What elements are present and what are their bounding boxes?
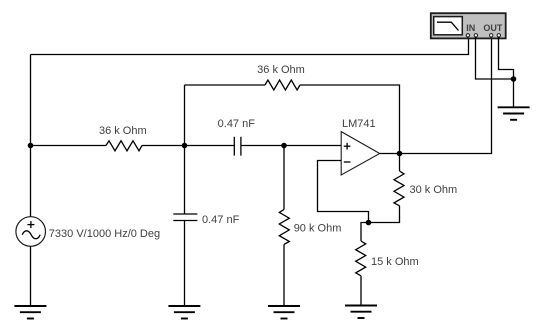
wire R1 right to node A (142, 145, 234, 147)
wire op-amp minus input feedback path (318, 161, 369, 223)
svg-text:IN: IN (466, 23, 475, 33)
wire top horizontal from left corner to Bode plotter IN+ (31, 37, 469, 55)
Bode plotter XBP1 body (431, 13, 506, 38)
svg-text:0.47 nF: 0.47 nF (202, 214, 240, 226)
wire R4 bottom to feedback node (369, 206, 400, 223)
capacitor C1 0.47 nF (series) right plate (240, 137, 242, 156)
wire R3 bottom to ground (283, 244, 285, 306)
resistor R4 30 k Ohm (394, 171, 404, 206)
Bode plotter screen (434, 17, 463, 35)
svg-text:15 k Ohm: 15 k Ohm (371, 256, 419, 268)
wire source top: input node down to V1 (30, 146, 32, 217)
wire node B down to R3 (283, 146, 285, 210)
svg-text:OUT: OUT (483, 23, 503, 33)
ground under C2 (168, 306, 200, 319)
wire IN- down and right to instrument ground node (476, 37, 514, 79)
Bode plotter response curve (437, 22, 459, 30)
node dot input (28, 143, 34, 149)
wire input node to R1 left (31, 145, 107, 147)
wire instrument ground node down to ground (513, 79, 515, 107)
AC source V1 circle (16, 217, 46, 247)
wire output node down to R4 top (399, 154, 401, 172)
capacitor C1 0.47 nF (series) left plate (233, 137, 235, 156)
wire V1 bottom to ground (30, 246, 32, 306)
resistor R2 36 k Ohm (feedback) (265, 80, 300, 90)
terminal OUT+ (490, 34, 493, 37)
ground under V1 (14, 306, 46, 319)
capacitor C2 0.47 nF (shunt) top plate (173, 213, 197, 215)
capacitor C2 0.47 nF (shunt) bottom plate (173, 220, 197, 222)
ground under R3 (268, 306, 300, 319)
node B dot (281, 143, 287, 149)
V1 sine wave (22, 231, 40, 239)
node A dot (182, 143, 188, 149)
op-amp minus sign (344, 161, 351, 163)
wire OUT- down and right to instrument ground node (499, 37, 514, 79)
terminal IN- (474, 34, 477, 37)
svg-text:LM741: LM741 (342, 118, 376, 130)
svg-text:30 k Ohm: 30 k Ohm (410, 184, 458, 196)
wire feedback top left segment (185, 84, 266, 86)
instrument ground node dot (511, 76, 517, 82)
wire C2 bottom to ground (184, 221, 186, 307)
wire R5 bottom to ground (360, 276, 362, 306)
wire C1 right to node B and op-amp plus input (241, 145, 341, 147)
ground at instrument (498, 107, 530, 120)
wire node A up to feedback loop (184, 85, 186, 146)
resistor R3 90 k Ohm (279, 210, 289, 245)
ground under R5 (345, 306, 377, 319)
V1 plus sign (27, 221, 34, 228)
op-amp plus sign (344, 143, 351, 150)
terminal IN+ (466, 34, 469, 37)
wire top-left vertical from top corner down to input node (30, 55, 32, 147)
resistor R5 15 k Ohm (356, 241, 366, 276)
svg-text:7330 V/1000 Hz/0 Deg: 7330 V/1000 Hz/0 Deg (49, 228, 160, 240)
wire output node right and up to Bode plotter OUT+ (400, 37, 492, 154)
resistor R1 36 k Ohm (input) (106, 141, 142, 151)
svg-text:0.47 nF: 0.47 nF (218, 118, 256, 130)
wire feedback node jog to R5 top (361, 223, 369, 242)
svg-text:90 k Ohm: 90 k Ohm (294, 223, 342, 235)
svg-text:36 k Ohm: 36 k Ohm (257, 64, 305, 76)
svg-text:36 k Ohm: 36 k Ohm (99, 125, 147, 137)
terminal OUT- (497, 34, 500, 37)
wire op-amp output to node (380, 153, 400, 155)
output node dot (397, 151, 403, 157)
feedback node dot (366, 220, 372, 226)
wire feedback top right segment down to output node (300, 85, 400, 154)
op-amp U1 LM741 triangle (341, 132, 380, 175)
wire node A down to C2 (184, 146, 186, 215)
